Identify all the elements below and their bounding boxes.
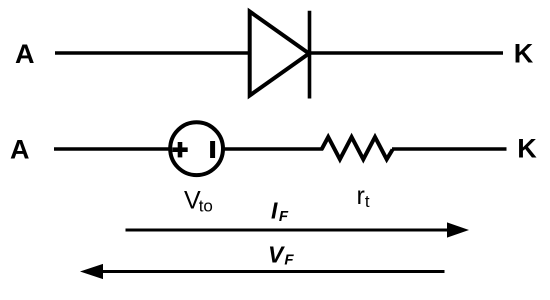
voltage arrow VF (pointing left): [101, 270, 445, 273]
wire (source to resistor): [223, 147, 323, 151]
diode D (triangle): [250, 12, 309, 96]
wire (top left, A to diode): [55, 51, 251, 55]
wire (resistor to K): [392, 147, 507, 151]
resistor rt (zigzag): [322, 137, 393, 159]
svg-text:A: A: [15, 39, 35, 69]
voltage source Vto bar (I): [210, 141, 215, 158]
current arrow IF (pointing right): [126, 229, 450, 232]
svg-text:K: K: [514, 39, 534, 69]
svg-text:K: K: [517, 134, 537, 164]
voltage source Vto (circle): [170, 122, 223, 175]
wire (bottom left, A to source): [54, 147, 170, 151]
wire (top right, diode to K): [310, 51, 504, 55]
diode D cathode bar: [308, 11, 312, 99]
svg-text:A: A: [10, 134, 30, 164]
voltage source Vto plus sign: [172, 142, 187, 157]
